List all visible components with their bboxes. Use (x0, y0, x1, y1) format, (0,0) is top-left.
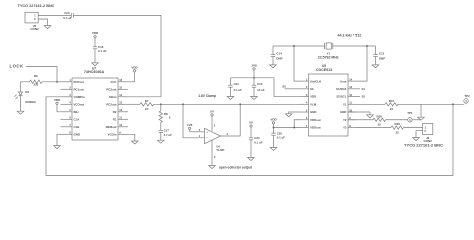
svg-text:VDD: VDD (310, 95, 316, 99)
wire 1V8 to junction (253, 70, 255, 78)
ground below C20 (270, 148, 277, 151)
wire rail to Xin pin1 (294, 46, 301, 81)
svg-text:22: 22 (378, 123, 382, 127)
svg-text:DEMout: DEMout (106, 125, 117, 129)
wire VCC pin16 to VDD (128, 72, 135, 82)
ground at J5 pin2 (44, 26, 51, 29)
svg-text:1V8: 1V8 (251, 63, 257, 67)
wire crystal top rail (273, 45, 325, 47)
svg-text:S0: S0 (310, 87, 314, 91)
wire rail to C13 (375, 46, 377, 55)
wire R9 to junction (42, 81, 62, 83)
wire TP2 stub (465, 103, 467, 104)
wire VDD to VDDout pin7 (273, 124, 275, 127)
wire C15 to ground (253, 87, 255, 96)
wire VDD to C16 (94, 38, 96, 47)
svg-text:Y2: Y2 (343, 118, 347, 122)
ground at U7 pin8 (54, 146, 61, 149)
comparator U4 TL331 (205, 128, 221, 143)
wire D2 to ground (20, 96, 22, 112)
svg-text:CDCE913: CDCE913 (316, 68, 332, 72)
wire U5 pin10 GND to ground (348, 111, 370, 113)
svg-text:R8: R8 (164, 112, 168, 116)
net label S1 (356, 88, 360, 90)
svg-text:R39: R39 (395, 122, 401, 126)
svg-text:SIGin: SIGin (109, 95, 117, 99)
svg-text:GREEN: GREEN (25, 100, 35, 104)
svg-text:22: 22 (396, 130, 400, 134)
svg-text:22: 22 (390, 107, 394, 111)
svg-text:TYCO 227161-2 BNC: TYCO 227161-2 BNC (18, 4, 55, 8)
svg-text:GND: GND (310, 110, 316, 114)
wire rail to C15 (253, 78, 255, 85)
resistor R8 0 (159, 111, 162, 122)
svg-text:TL331: TL331 (216, 148, 225, 152)
wire C13 to ground (375, 57, 377, 65)
wire rail to Xout pin14 (356, 46, 367, 81)
svg-text:0.1 uF: 0.1 uF (98, 49, 107, 53)
svg-text:S2: S2 (362, 95, 366, 99)
svg-text:TYCO 227161-2 BNC: TYCO 227161-2 BNC (404, 143, 443, 148)
node VDDout junction (273, 127, 275, 129)
wire Y1 drop arrow (420, 104, 422, 117)
wire VDD node to C20 (273, 127, 275, 133)
svg-text:1V8: 1V8 (187, 123, 193, 127)
svg-text:1.8V Clamp: 1.8V Clamp (198, 94, 216, 98)
ground at J6 pin2 (413, 138, 420, 141)
capacitor C15 10 uF (252, 84, 256, 86)
svg-text:C23: C23 (64, 11, 70, 15)
wire TL331 pin3 input (190, 131, 205, 133)
svg-text:C1A: C1A (74, 117, 81, 121)
svg-text:INH: INH (74, 110, 79, 114)
svg-text:DNP: DNP (276, 56, 282, 60)
ground below C14 (270, 65, 277, 68)
node comparator sense junction (182, 103, 184, 105)
wire 1V8 to U5 VDD pin3 (274, 78, 301, 97)
svg-text:44.1 kHz * 512: 44.1 kHz * 512 (338, 33, 362, 37)
wire feedback to COMPin (46, 97, 453, 176)
svg-text:S1/SDA: S1/SDA (336, 87, 347, 91)
capacitor C23 0.1 uF (series) (70, 13, 72, 18)
wire R37 to TP2 (398, 103, 464, 105)
wire TL331 output to main line (221, 104, 241, 136)
svg-text:CON2: CON2 (30, 27, 39, 31)
svg-text:VDDout: VDDout (310, 118, 321, 122)
U7 right pin stubs (118, 81, 128, 83)
wire control-voltage main line (154, 103, 301, 105)
ground at U5 pin5 (285, 114, 292, 117)
svg-text:TP2: TP2 (464, 94, 470, 98)
svg-text:−: − (206, 136, 208, 140)
resistor R37 22 (385, 103, 398, 106)
wire 1V8 to pin3 (189, 130, 191, 132)
node 1V8 rail junction (253, 77, 255, 79)
ground below D2 (17, 111, 24, 114)
ground at TL331 pin2 (209, 166, 216, 169)
wire C20 to ground (273, 135, 275, 147)
ground arrow at Y1 drop (418, 117, 425, 120)
svg-text:open-collector output: open-collector output (219, 165, 253, 169)
wire Y3 to R39 (356, 126, 391, 128)
svg-text:D2: D2 (25, 90, 29, 94)
svg-text:R7: R7 (145, 99, 149, 103)
svg-text:VDD: VDD (131, 65, 138, 69)
capacitor C21 0.1 uF (228, 84, 232, 86)
svg-text:VDDout: VDDout (310, 126, 321, 130)
node pin6 tie junction (293, 127, 295, 129)
svg-text:R37: R37 (389, 99, 395, 103)
node R8 junction (160, 103, 162, 105)
U5 right pin stubs (348, 80, 356, 82)
wire VDDout pin7 (274, 126, 301, 128)
svg-text:R9: R9 (34, 74, 38, 78)
svg-text:R38: R38 (377, 114, 383, 118)
svg-text:S1: S1 (362, 87, 366, 91)
svg-text:COMPin: COMPin (74, 95, 85, 99)
wire C16 to ground (94, 49, 96, 63)
svg-text:0.1 uF: 0.1 uF (277, 136, 286, 140)
svg-text:PCPout: PCPout (74, 80, 84, 84)
wire U5 GND pin5 to ground (289, 112, 301, 114)
svg-text:VCC: VCC (110, 80, 117, 84)
capacitor C13 DNP (373, 54, 377, 56)
wire J6 pin2 to ground (416, 131, 423, 138)
svg-text:4.7 uF: 4.7 uF (164, 133, 173, 137)
svg-text:VDD: VDD (270, 118, 277, 122)
svg-text:C21: C21 (234, 82, 240, 86)
wire 1V8 rail horizontal (231, 77, 275, 79)
resistor R9 330 (30, 80, 42, 83)
svg-text:Xin/CLK: Xin/CLK (310, 79, 322, 83)
wire C23 to SIGin feed (74, 15, 162, 96)
ground below C17 (158, 140, 165, 143)
svg-text:VCOin: VCOin (108, 132, 117, 136)
LED D2 GREEN (18, 92, 22, 96)
wire R9 to D2 (21, 82, 30, 92)
svg-text:DNP: DNP (379, 56, 385, 60)
wire R38 to TP1 (386, 119, 408, 121)
wire J5 pin1 to C23 (38, 14, 71, 16)
node feedback junction (452, 103, 454, 105)
svg-text:PC2out: PC2out (106, 102, 116, 106)
svg-text:330: 330 (33, 83, 38, 87)
svg-text:PC1out: PC1out (74, 87, 84, 91)
wire J5 pin2 to ground (38, 19, 47, 26)
connector J5 CON2 (BNC) (25, 12, 38, 23)
wire R39 to J6 pin1 (404, 126, 423, 128)
capacitor C24 0.1 uF (249, 137, 253, 139)
svg-text:TP1: TP1 (407, 111, 413, 115)
svg-text:22.5792 MHz: 22.5792 MHz (318, 55, 339, 59)
svg-text:0.1 uF: 0.1 uF (234, 88, 243, 92)
wire TP1 to arrow (412, 119, 421, 121)
node Xin junction (293, 45, 295, 47)
wire S0 to U5 pin2 (285, 88, 301, 90)
svg-text:C14: C14 (276, 51, 282, 55)
svg-text:S0: S0 (282, 85, 286, 89)
svg-text:VCOout: VCOout (74, 102, 85, 106)
U5 left pin stubs (301, 80, 309, 82)
svg-text:0.1 uF: 0.1 uF (63, 16, 72, 20)
wire Y2 to R38 (348, 119, 373, 121)
ground at U5 pin10 (367, 115, 374, 118)
wire R8 to C17 (160, 122, 162, 130)
wire VDDout pin6 tie (294, 120, 300, 128)
resistor R7 1K (140, 103, 154, 106)
svg-text:Xout: Xout (340, 79, 346, 83)
wire C21 to ground (230, 87, 232, 96)
net label S2 (356, 96, 360, 98)
capacitor C14 DNP (271, 54, 275, 56)
wire VDD to INH pin5 (57, 104, 62, 111)
ground below C24 (248, 158, 255, 161)
svg-text:0.1 uF: 0.1 uF (254, 140, 263, 144)
U7 left pin stubs (62, 81, 72, 83)
wire Y1 to R37 (356, 103, 385, 105)
resistor R39 22 (391, 126, 404, 129)
svg-text:LOCK: LOCK (10, 64, 24, 69)
wire rail to C14 (272, 46, 274, 55)
wire TL331 pin2 to ground (211, 140, 213, 166)
svg-text:C1B: C1B (74, 125, 80, 129)
node TL331 output junction (239, 103, 241, 105)
svg-text:VDD: VDD (92, 31, 99, 35)
wire 5V to TL331 top (211, 116, 213, 131)
wire C14 to ground (272, 57, 274, 65)
svg-text:R2: R2 (113, 110, 117, 114)
capacitor C17 4.7 uF (159, 129, 163, 131)
wire PC2out to R7 (128, 103, 140, 105)
wire 5V to C24 (250, 127, 252, 138)
svg-text:GND: GND (340, 110, 346, 114)
svg-text:PC3out: PC3out (106, 87, 116, 91)
connector J6 CON2 (BNC) (423, 124, 433, 135)
svg-text:5V: 5V (210, 109, 214, 113)
svg-text:VLM: VLM (310, 102, 317, 106)
svg-text:Y1: Y1 (343, 102, 347, 106)
svg-text:Y3: Y3 (343, 126, 347, 130)
svg-text:+: + (206, 130, 208, 134)
ground below C13 (372, 65, 379, 68)
svg-text:R1: R1 (113, 117, 117, 121)
wire LOCK to PCPout (26, 67, 57, 82)
ground below C15 (251, 97, 258, 100)
capacitor C20 0.1 uF (271, 132, 275, 134)
svg-text:5V: 5V (249, 121, 253, 125)
svg-text:C15: C15 (257, 82, 263, 86)
capacitor C16 0.1 uF (93, 46, 97, 48)
node PCPout/LOCK junction (56, 81, 58, 83)
wire junction to R8 (160, 104, 162, 111)
wire GND pin8 to ground (57, 134, 62, 145)
wire rail to C21 (230, 78, 232, 85)
resistor R38 22 (373, 118, 386, 121)
ground below C21 (227, 97, 234, 100)
wire C24 to ground (250, 140, 252, 158)
svg-text:C13: C13 (379, 51, 385, 55)
ground below C16 (92, 63, 99, 66)
crystal Y1 22.5792 MHz (324, 43, 326, 49)
svg-text:GND: GND (74, 132, 80, 136)
wire VCOin pin9 to ground (128, 134, 135, 141)
wire junction down to TL331 inverting input (183, 104, 205, 138)
ground at U7 pin9 (132, 141, 139, 144)
node Xout junction (366, 45, 368, 47)
svg-text:VDD: VDD (54, 98, 61, 102)
svg-text:S2/SCL: S2/SCL (336, 95, 346, 99)
wire C17 to ground (160, 132, 162, 140)
svg-text:10 uF: 10 uF (257, 88, 265, 92)
svg-text:74HC4046A: 74HC4046A (84, 70, 105, 74)
